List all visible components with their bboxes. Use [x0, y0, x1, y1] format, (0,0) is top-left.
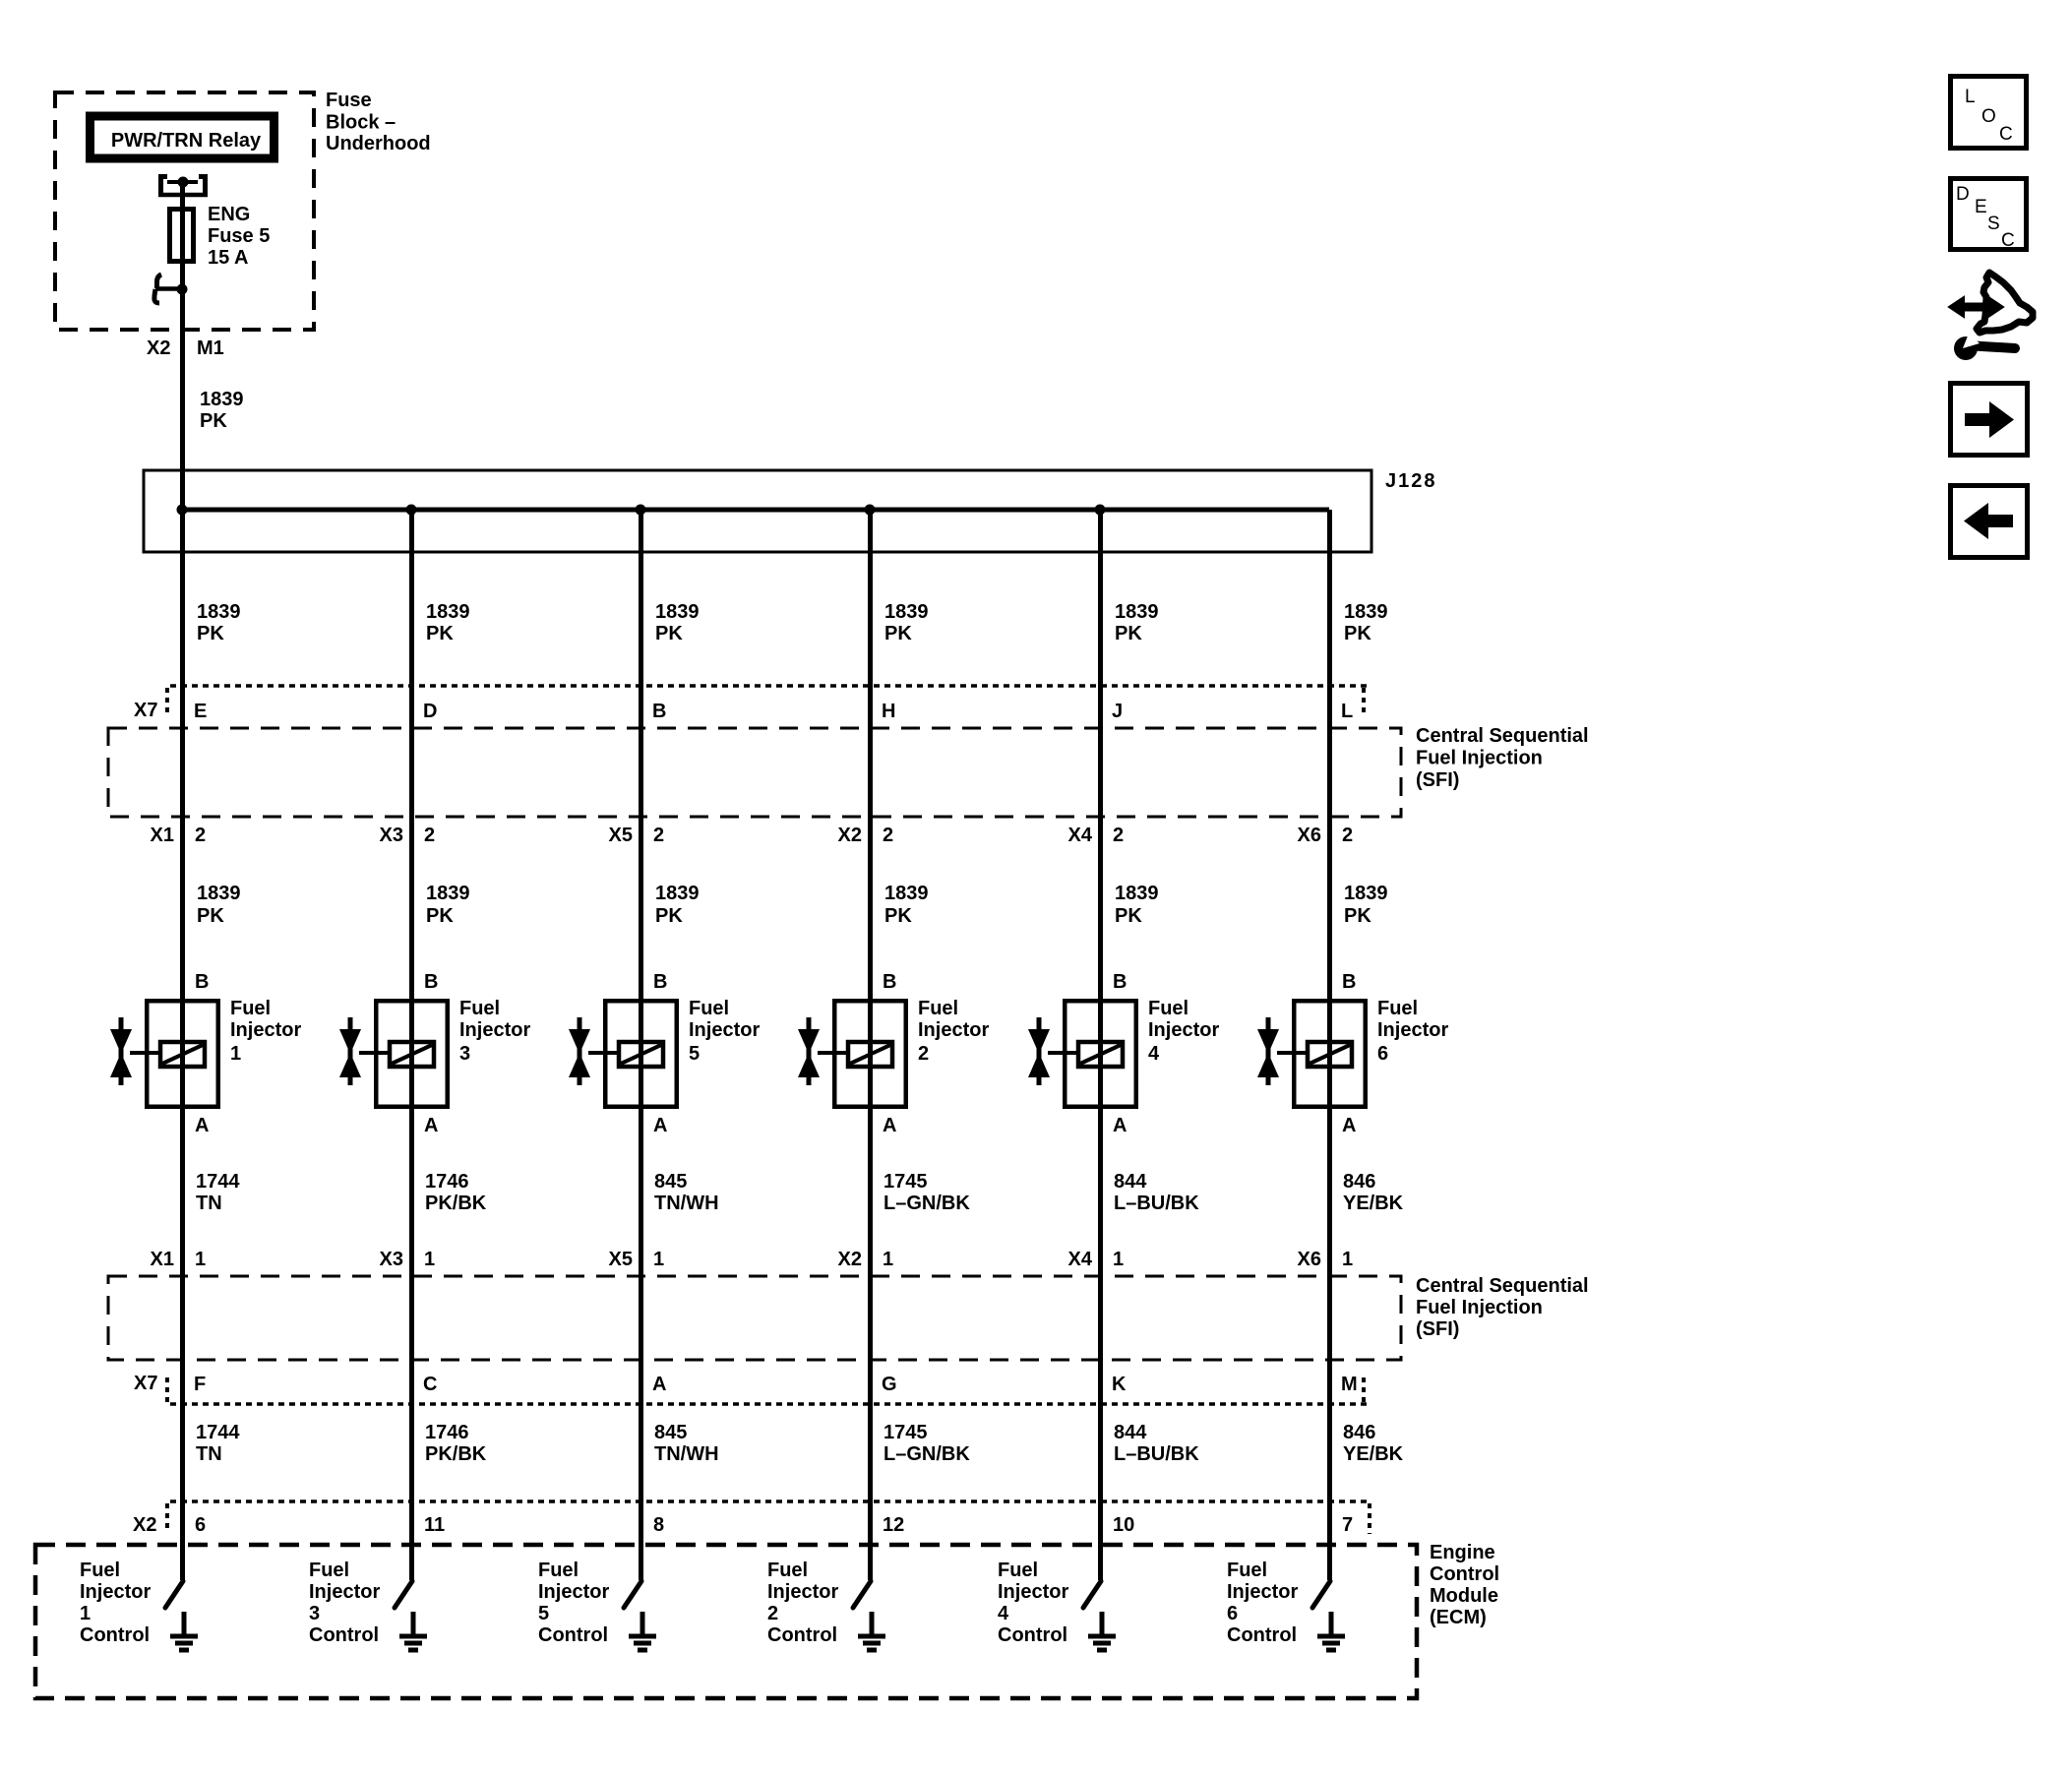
svg-text:Injector: Injector [538, 1581, 609, 1603]
svg-text:YE/BK: YE/BK [1343, 1443, 1404, 1465]
wire 844 L–BU/BK label lower [1114, 1422, 1199, 1465]
svg-text:Fuel: Fuel [538, 1560, 579, 1581]
svg-text:4: 4 [998, 1603, 1009, 1624]
fuse label [208, 204, 270, 269]
svg-text:1745: 1745 [884, 1171, 928, 1193]
svg-text:1: 1 [195, 1249, 206, 1270]
svg-text:Injector: Injector [80, 1581, 151, 1603]
svg-text:D: D [1956, 184, 1970, 205]
svg-text:PK: PK [655, 623, 683, 644]
svg-text:Injector: Injector [767, 1581, 838, 1603]
ground injector 6 control [1317, 1612, 1345, 1650]
fuel injector 6 [1294, 999, 1366, 1109]
wire 1746 PK/BK label upper [425, 1171, 487, 1214]
svg-text:A: A [653, 1115, 667, 1136]
wire 845 TN/WH label lower [654, 1422, 719, 1465]
svg-text:1839: 1839 [200, 389, 244, 410]
connector X2 pin M1 labels [147, 337, 224, 359]
svg-text:Injector: Injector [918, 1019, 989, 1041]
svg-text:Fuel: Fuel [230, 998, 271, 1019]
wire 1839 PK label below splice column 1 [197, 601, 241, 644]
svg-text:A: A [1113, 1115, 1127, 1136]
relay output terminal bracket [158, 174, 208, 197]
wire 1745 L–GN/BK label upper [884, 1171, 970, 1214]
connector X5 pin 2 labels [609, 825, 665, 846]
DESC icon box [1951, 179, 2027, 252]
svg-text:2: 2 [1113, 825, 1124, 846]
svg-text:X2: X2 [147, 337, 170, 359]
svg-text:Fuel: Fuel [767, 1560, 808, 1581]
svg-text:Fuel: Fuel [1377, 998, 1418, 1019]
wire 845 TN/WH label upper [654, 1171, 719, 1214]
svg-text:A: A [195, 1115, 209, 1136]
fuse block underhood dashed box [55, 92, 314, 330]
injector 5 driver switch [624, 1581, 641, 1608]
svg-text:B: B [652, 701, 666, 722]
svg-text:X6: X6 [1298, 1249, 1321, 1270]
svg-text:Control: Control [767, 1624, 837, 1646]
svg-text:A: A [1342, 1115, 1356, 1136]
relay K1 PWR/TRN Relay box [91, 116, 274, 158]
svg-text:PK: PK [1115, 905, 1142, 927]
svg-text:1: 1 [1113, 1249, 1124, 1270]
svg-text:C: C [423, 1374, 437, 1395]
LOC icon box [1951, 77, 2027, 149]
svg-text:B: B [653, 971, 667, 993]
wire 844 L–BU/BK label upper [1114, 1171, 1199, 1214]
svg-text:Control: Control [309, 1624, 379, 1646]
fuel injector 3 control label [309, 1560, 380, 1646]
svg-text:Injector: Injector [459, 1019, 530, 1041]
svg-text:PK: PK [426, 905, 454, 927]
connector X3 pin 1 labels [380, 1249, 436, 1270]
svg-text:B: B [195, 971, 209, 993]
SFI label upper [1416, 725, 1589, 791]
svg-text:X5: X5 [609, 825, 633, 846]
svg-text:Central Sequential: Central Sequential [1416, 1275, 1589, 1297]
svg-text:1746: 1746 [425, 1422, 469, 1443]
injector 2 nozzle valve symbol [798, 1017, 832, 1085]
svg-text:PK/BK: PK/BK [425, 1193, 487, 1214]
svg-text:X4: X4 [1068, 825, 1093, 846]
connector X6 pin 2 labels [1298, 825, 1354, 846]
svg-text:ENG: ENG [208, 204, 250, 225]
splice pack J128 box [144, 470, 1371, 552]
svg-text:1839: 1839 [884, 883, 929, 904]
ground injector 3 control [399, 1612, 427, 1650]
fuel injector 5 label [689, 998, 760, 1065]
svg-text:5: 5 [538, 1603, 549, 1624]
svg-text:X6: X6 [1298, 825, 1321, 846]
svg-text:L: L [1341, 701, 1353, 722]
wire 1839 PK label below splice column 4 [884, 601, 929, 644]
svg-text:D: D [423, 701, 437, 722]
svg-text:Injector: Injector [998, 1581, 1068, 1603]
Central Sequential Fuel Injection SFI box upper [108, 728, 1401, 817]
svg-text:PK: PK [426, 623, 454, 644]
injector 1 nozzle valve symbol [110, 1017, 145, 1085]
wire 1839 PK label column 6 [1344, 883, 1388, 927]
svg-text:Injector: Injector [1227, 1581, 1298, 1603]
splice junction dot 1 [177, 505, 188, 516]
fuel injector 4 control label [998, 1560, 1068, 1646]
fuel injector 1 control label [80, 1560, 151, 1646]
svg-text:1: 1 [80, 1603, 91, 1624]
svg-text:X7: X7 [134, 1373, 157, 1394]
fuel injector 2 [834, 999, 906, 1109]
injector 5 nozzle valve symbol [569, 1017, 603, 1085]
svg-text:B: B [424, 971, 438, 993]
svg-text:Fuel: Fuel [459, 998, 500, 1019]
fuel injector 6 label [1377, 998, 1448, 1065]
wire 846 YE/BK label lower [1343, 1422, 1404, 1465]
svg-text:H: H [882, 701, 895, 722]
fuel injector 6 control label [1227, 1560, 1298, 1646]
svg-text:Control: Control [1227, 1624, 1297, 1646]
svg-text:(ECM): (ECM) [1430, 1607, 1487, 1628]
injector 6 driver switch [1312, 1581, 1330, 1608]
svg-text:Injector: Injector [309, 1581, 380, 1603]
svg-text:1839: 1839 [426, 601, 470, 623]
svg-text:A: A [652, 1374, 666, 1395]
svg-text:X7: X7 [134, 700, 157, 721]
svg-text:PK: PK [884, 623, 912, 644]
svg-text:Fuel: Fuel [1148, 998, 1188, 1019]
svg-text:B: B [1113, 971, 1127, 993]
svg-text:Control: Control [80, 1624, 150, 1646]
svg-text:Fuel Injection: Fuel Injection [1416, 748, 1543, 769]
svg-text:TN/WH: TN/WH [654, 1193, 719, 1214]
svg-text:YE/BK: YE/BK [1343, 1193, 1404, 1214]
wire 1746 PK/BK label lower [425, 1422, 487, 1465]
connector X7 dotted line top [167, 686, 1368, 715]
svg-text:TN: TN [196, 1193, 222, 1214]
right arrow icon box [1951, 384, 2028, 456]
svg-text:B: B [1342, 971, 1356, 993]
svg-text:PWR/TRN Relay: PWR/TRN Relay [111, 130, 262, 152]
svg-text:Fuel Injection: Fuel Injection [1416, 1297, 1543, 1318]
svg-text:7: 7 [1342, 1514, 1353, 1536]
splice junction dot 5 [1095, 505, 1106, 516]
svg-text:846: 846 [1343, 1422, 1375, 1443]
connector X5 pin 1 labels [609, 1249, 665, 1270]
fuel injector 4 label [1148, 998, 1219, 1065]
svg-text:X4: X4 [1068, 1249, 1093, 1270]
svg-text:X1: X1 [151, 825, 174, 846]
fuel injector 5 control label [538, 1560, 609, 1646]
svg-text:J128: J128 [1385, 470, 1437, 492]
connector X3 pin 2 labels [380, 825, 436, 846]
Engine Control Module ECM dashed box [35, 1545, 1417, 1698]
svg-text:1744: 1744 [196, 1171, 240, 1193]
ECM label [1430, 1542, 1499, 1628]
svg-text:Fuse 5: Fuse 5 [208, 225, 270, 247]
fuel injector 4 [1065, 999, 1136, 1109]
svg-text:2: 2 [767, 1603, 778, 1624]
injector 6 nozzle valve symbol [1257, 1017, 1292, 1085]
fuse block label [326, 90, 431, 154]
svg-text:10: 10 [1113, 1514, 1134, 1536]
wire injector feed column 1 [180, 510, 185, 1580]
fuel injector 5 [605, 999, 677, 1109]
svg-text:12: 12 [883, 1514, 904, 1536]
svg-text:G: G [882, 1374, 897, 1395]
fuel injector 2 control label [767, 1560, 838, 1646]
wire 1839 PK label below splice column 2 [426, 601, 470, 644]
svg-text:Fuel: Fuel [80, 1560, 120, 1581]
svg-text:PK/BK: PK/BK [425, 1443, 487, 1465]
svg-text:C: C [1999, 124, 2013, 145]
svg-text:8: 8 [653, 1514, 664, 1536]
wire injector feed column 5 [1098, 510, 1103, 1580]
svg-text:6: 6 [1377, 1043, 1388, 1065]
svg-text:844: 844 [1114, 1171, 1147, 1193]
wire 1839 PK label column 2 [426, 883, 470, 927]
connector X4 pin 1 labels [1068, 1249, 1125, 1270]
connector X7 dotted line bottom [167, 1377, 1368, 1407]
wire 846 YE/BK label upper [1343, 1171, 1404, 1214]
wire 1744 TN label upper [196, 1171, 240, 1214]
svg-text:Control: Control [998, 1624, 1067, 1646]
wire injector feed column 4 [868, 510, 873, 1580]
svg-text:1: 1 [424, 1249, 435, 1270]
svg-text:Injector: Injector [230, 1019, 301, 1041]
svg-text:PK: PK [655, 905, 683, 927]
Central Sequential Fuel Injection SFI box lower [108, 1276, 1401, 1360]
svg-text:X2: X2 [838, 825, 862, 846]
svg-text:2: 2 [653, 825, 664, 846]
svg-text:2: 2 [883, 825, 893, 846]
svg-text:C: C [2001, 230, 2015, 251]
svg-text:X5: X5 [609, 1249, 633, 1270]
svg-text:Fuel: Fuel [918, 998, 958, 1019]
svg-text:M: M [1341, 1374, 1358, 1395]
fuel injector 3 label [459, 998, 530, 1065]
injector 1 driver switch [165, 1581, 183, 1608]
wire 1744 TN label lower [196, 1422, 240, 1465]
svg-text:M1: M1 [197, 337, 224, 359]
svg-text:Injector: Injector [1148, 1019, 1219, 1041]
wire 1839 PK label column 5 [1115, 883, 1159, 927]
svg-text:1839: 1839 [655, 601, 700, 623]
injector 3 driver switch [395, 1581, 412, 1608]
svg-text:K: K [1112, 1374, 1127, 1395]
svg-text:1744: 1744 [196, 1422, 240, 1443]
svg-text:1839: 1839 [1115, 883, 1159, 904]
connector X6 pin 1 labels [1298, 1249, 1354, 1270]
svg-text:6: 6 [1227, 1603, 1238, 1624]
svg-text:1839: 1839 [1344, 883, 1388, 904]
svg-text:1746: 1746 [425, 1171, 469, 1193]
svg-text:1839: 1839 [197, 883, 241, 904]
svg-text:1: 1 [653, 1249, 664, 1270]
svg-text:PK: PK [1344, 905, 1371, 927]
relay contact hook [154, 275, 188, 303]
svg-text:O: O [1981, 106, 1996, 127]
svg-text:1: 1 [1342, 1249, 1353, 1270]
wire 1839 PK label top [200, 389, 244, 432]
svg-text:PK: PK [1344, 623, 1371, 644]
left arrow icon box [1951, 486, 2028, 558]
svg-text:L–GN/BK: L–GN/BK [884, 1443, 970, 1465]
svg-text:E: E [1975, 197, 1987, 217]
svg-text:(SFI): (SFI) [1416, 1318, 1459, 1340]
svg-text:X1: X1 [151, 1249, 174, 1270]
svg-text:1745: 1745 [884, 1422, 928, 1443]
svg-text:Fuel: Fuel [689, 998, 729, 1019]
svg-text:X3: X3 [380, 825, 403, 846]
svg-text:PK: PK [200, 410, 227, 432]
connector X4 pin 2 labels [1068, 825, 1125, 846]
splice junction dot 3 [636, 505, 646, 516]
ground injector 1 control [170, 1612, 198, 1650]
svg-text:L–GN/BK: L–GN/BK [884, 1193, 970, 1214]
svg-text:1839: 1839 [426, 883, 470, 904]
fuel injector 3 [376, 999, 448, 1109]
connector X2 dotted line ECM [167, 1501, 1370, 1534]
wire 1839 PK label column 1 [197, 883, 241, 927]
svg-text:X2: X2 [838, 1249, 862, 1270]
wire 1839 PK label column 3 [655, 883, 700, 927]
svg-text:844: 844 [1114, 1422, 1147, 1443]
svg-text:F: F [194, 1374, 206, 1395]
wire 1839 PK label below splice column 5 [1115, 601, 1159, 644]
svg-text:Engine: Engine [1430, 1542, 1495, 1563]
svg-text:TN/WH: TN/WH [654, 1443, 719, 1465]
wire injector feed column 2 [409, 510, 414, 1580]
svg-text:845: 845 [654, 1422, 687, 1443]
connector X2 pin 2 labels [838, 825, 894, 846]
wire 1839 PK label column 4 [884, 883, 929, 927]
svg-text:5: 5 [689, 1043, 700, 1065]
wire from relay through fuse [180, 182, 185, 510]
SFI label lower [1416, 1275, 1589, 1340]
diagnostic wrench icon [1949, 273, 2033, 360]
wire 1745 L–GN/BK label lower [884, 1422, 970, 1465]
svg-text:Fuel: Fuel [998, 1560, 1038, 1581]
svg-text:846: 846 [1343, 1171, 1375, 1193]
svg-text:3: 3 [459, 1043, 470, 1065]
svg-text:PK: PK [884, 905, 912, 927]
injector 4 nozzle valve symbol [1028, 1017, 1063, 1085]
svg-text:1839: 1839 [1115, 601, 1159, 623]
svg-text:B: B [883, 971, 896, 993]
svg-text:X2: X2 [133, 1514, 156, 1536]
svg-text:L: L [1965, 87, 1976, 107]
wire injector feed column 6 [1327, 510, 1332, 1580]
svg-text:PK: PK [197, 905, 224, 927]
injector 3 nozzle valve symbol [339, 1017, 374, 1085]
svg-text:1839: 1839 [884, 601, 929, 623]
svg-text:1839: 1839 [655, 883, 700, 904]
svg-text:PK: PK [1115, 623, 1142, 644]
svg-text:1: 1 [230, 1043, 241, 1065]
svg-text:6: 6 [195, 1514, 206, 1536]
injector 2 driver switch [853, 1581, 871, 1608]
fuel injector 2 label [918, 998, 989, 1065]
svg-text:11: 11 [424, 1514, 445, 1536]
wire 1839 PK label below splice column 6 [1344, 601, 1388, 644]
svg-text:2: 2 [424, 825, 435, 846]
ground injector 4 control [1088, 1612, 1116, 1650]
svg-text:2: 2 [918, 1043, 929, 1065]
svg-text:1839: 1839 [1344, 601, 1388, 623]
connector X2 pin 1 labels [838, 1249, 894, 1270]
svg-text:A: A [883, 1115, 896, 1136]
svg-text:Central Sequential: Central Sequential [1416, 725, 1589, 747]
fuel injector 1 [147, 999, 218, 1109]
svg-text:PK: PK [197, 623, 224, 644]
svg-text:Control: Control [1430, 1563, 1499, 1585]
splice junction dot 4 [865, 505, 876, 516]
svg-text:TN: TN [196, 1443, 222, 1465]
svg-text:2: 2 [1342, 825, 1353, 846]
svg-text:15 A: 15 A [208, 247, 249, 269]
ground injector 5 control [629, 1612, 656, 1650]
splice junction dot 2 [406, 505, 417, 516]
fuse F5 ENG Fuse 5 15 A [170, 209, 194, 262]
svg-text:Block –: Block – [326, 112, 396, 134]
svg-text:X3: X3 [380, 1249, 403, 1270]
svg-text:4: 4 [1148, 1043, 1160, 1065]
wire injector feed column 3 [639, 510, 643, 1580]
svg-text:L–BU/BK: L–BU/BK [1114, 1193, 1199, 1214]
svg-text:Underhood: Underhood [326, 133, 431, 154]
svg-text:Injector: Injector [1377, 1019, 1448, 1041]
svg-text:L–BU/BK: L–BU/BK [1114, 1443, 1199, 1465]
svg-text:Fuel: Fuel [1227, 1560, 1267, 1581]
svg-text:Module: Module [1430, 1585, 1498, 1607]
svg-text:Injector: Injector [689, 1019, 760, 1041]
svg-text:2: 2 [195, 825, 206, 846]
svg-text:E: E [194, 701, 207, 722]
svg-text:Fuse: Fuse [326, 90, 372, 111]
svg-text:Control: Control [538, 1624, 608, 1646]
injector 4 driver switch [1083, 1581, 1101, 1608]
svg-text:(SFI): (SFI) [1416, 769, 1459, 791]
connector X1 pin 1 labels [151, 1249, 207, 1270]
svg-text:Fuel: Fuel [309, 1560, 349, 1581]
svg-text:3: 3 [309, 1603, 320, 1624]
connector X1 pin 2 labels [151, 825, 207, 846]
svg-text:A: A [424, 1115, 438, 1136]
svg-text:S: S [1987, 214, 2000, 234]
fuel injector 1 label [230, 998, 301, 1065]
svg-text:1839: 1839 [197, 601, 241, 623]
svg-text:1: 1 [883, 1249, 893, 1270]
svg-text:J: J [1112, 701, 1123, 722]
wire 1839 PK label below splice column 3 [655, 601, 700, 644]
ground injector 2 control [858, 1612, 885, 1650]
bus wire inside J128 [182, 508, 1329, 513]
svg-text:845: 845 [654, 1171, 687, 1193]
